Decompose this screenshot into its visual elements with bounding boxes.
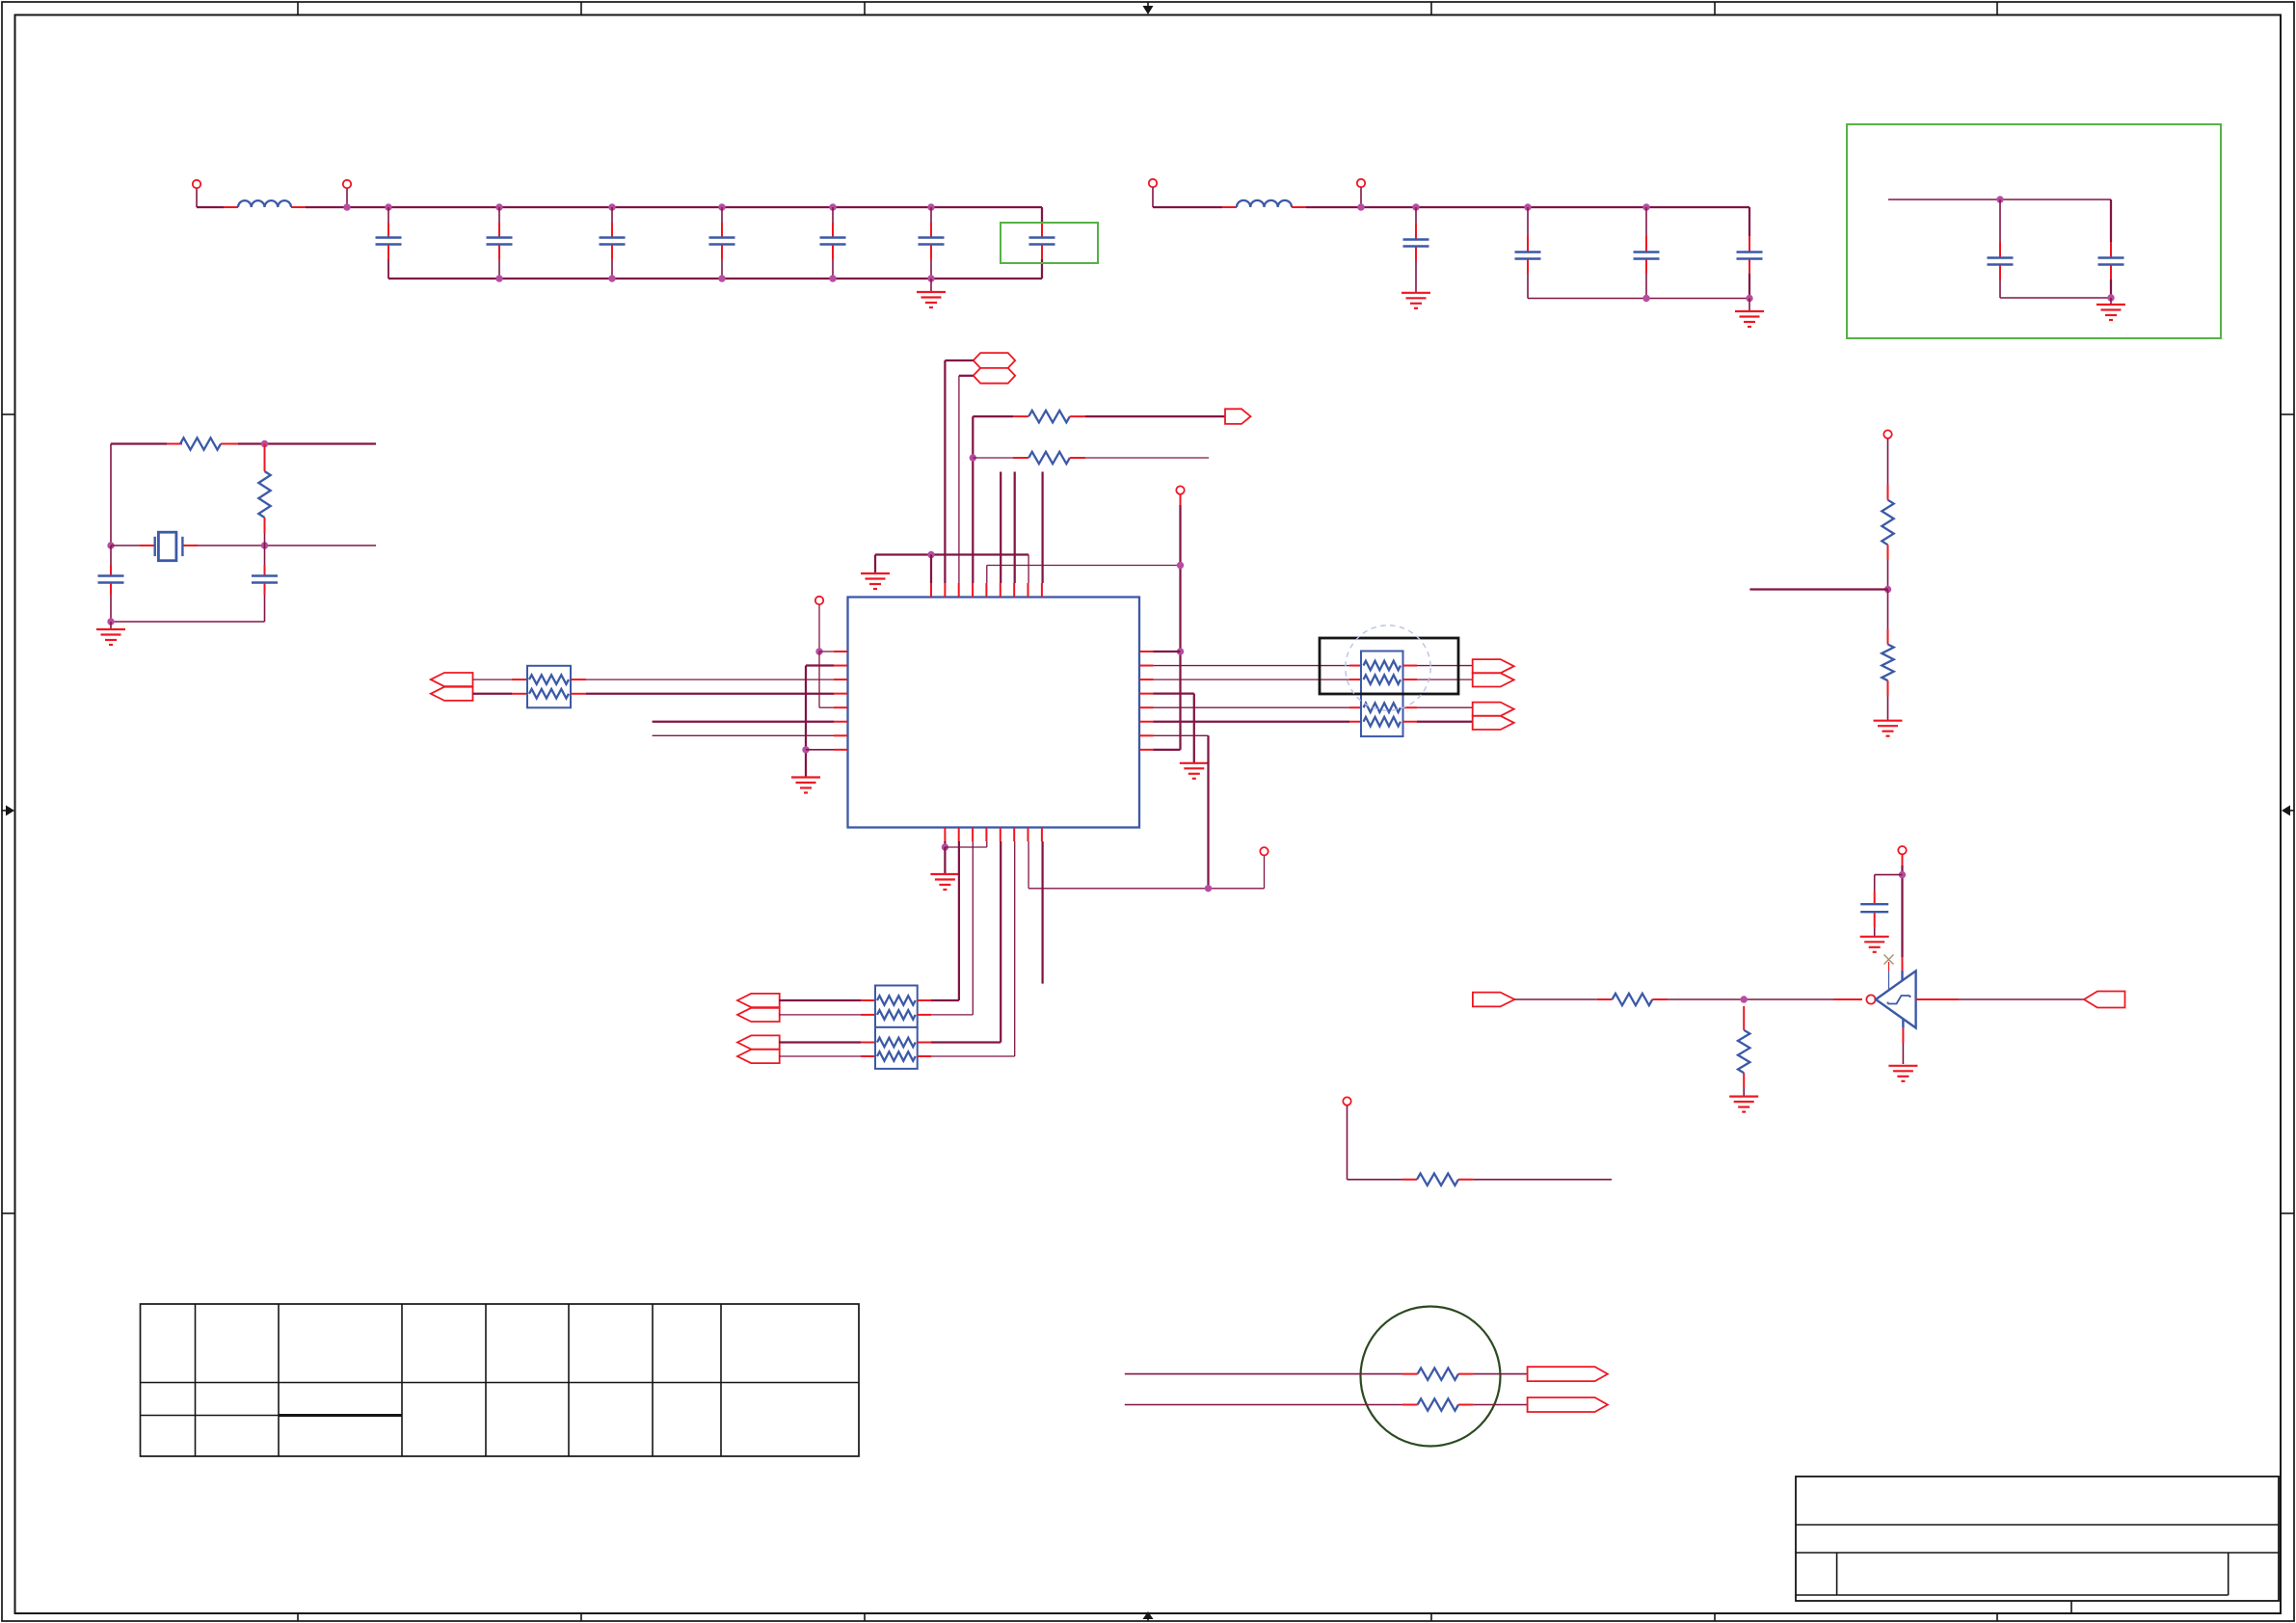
resistor R6 (1882, 645, 1893, 681)
capacitor C15 (252, 576, 278, 583)
wire pin 705 to RN2 (1154, 678, 1350, 680)
wire P9 stub (1902, 855, 1904, 865)
wire RN3B to flag (1403, 721, 1418, 723)
wire crystal top rail right (221, 443, 238, 445)
wire inverter output (1916, 998, 1959, 1000)
junction (1996, 196, 2003, 202)
wire cap C15 bottom lead (264, 584, 266, 596)
wire cap C3 bottom lead (611, 246, 613, 260)
junction (970, 454, 976, 461)
ground (1874, 721, 1903, 736)
wire cap C4 top lead (721, 207, 723, 223)
wire P5 to pin (818, 605, 820, 652)
resistor RN3B (1364, 717, 1402, 727)
wire cap C2 bottom lead (498, 246, 500, 260)
wire R9 open end (1458, 1179, 1474, 1181)
border center arrow left (2, 806, 14, 816)
capacitor C2 (487, 238, 513, 245)
junction (829, 203, 836, 210)
wire R3 to flag (1070, 415, 1085, 417)
inductor L1 (238, 200, 291, 207)
wire cap C6 top lead (930, 207, 932, 223)
port flag RX2 (737, 1008, 780, 1022)
resistor RN3A (1364, 703, 1402, 712)
wire cap C5 top lead (832, 207, 834, 223)
port flag OUT1 (1225, 409, 1251, 424)
junction (1642, 203, 1649, 210)
inverter U2 power pin (1902, 957, 1904, 971)
resistor R11 (1418, 1398, 1458, 1410)
wire divider tap (1749, 588, 1887, 590)
wire gnd jumper (945, 846, 986, 848)
junction (718, 203, 725, 210)
wire cap C14 bottom lead (110, 584, 112, 596)
wire VCC corner to pin 778 (1154, 749, 1181, 751)
wire P7 riser (1264, 856, 1266, 889)
resistor network RN1 box (527, 666, 571, 708)
port P6 (1176, 486, 1184, 493)
capacitor C7 (1029, 238, 1055, 245)
junction (927, 551, 934, 558)
wire cap C1 top lead (387, 207, 389, 223)
wire VCC to pin 676 (1154, 651, 1181, 652)
wire RX4 to RN5 (779, 1055, 861, 1057)
wire cap top lead (1645, 207, 1647, 236)
wire cap C13 top lead (2110, 200, 2112, 242)
wire P3 stub (1152, 188, 1154, 207)
resistor R10 (1418, 1368, 1458, 1379)
junction (927, 275, 934, 281)
wire filter1 bottom rail (388, 278, 1042, 279)
wire pair line 2 (1125, 1404, 1402, 1406)
wire greenbox top rail (1888, 199, 2111, 200)
ground (96, 629, 125, 645)
wire RN1B to pin 720 (571, 693, 586, 695)
capacitor C4 (709, 238, 735, 245)
ground (1402, 293, 1430, 308)
wire filter1 right wrap (1041, 207, 1043, 223)
resistor network RN5 box (875, 1027, 918, 1069)
capacitor C3 (600, 238, 626, 245)
wire pin b3 down (972, 841, 974, 1015)
IC U1 body (848, 598, 1140, 828)
wire cap C15 top lead (264, 545, 266, 565)
resistor RN1A (529, 675, 569, 684)
capacitor C5 (820, 238, 846, 245)
wire RNB row2 to pin (931, 1055, 1015, 1057)
junction (815, 648, 822, 654)
capacitor C8 (1403, 240, 1429, 247)
junction (608, 275, 615, 281)
wire cap C5 bottom lead (832, 246, 834, 260)
wire top resistor row2 (973, 457, 1013, 459)
junction (1177, 648, 1184, 654)
port flag IO2 (431, 687, 473, 701)
port P9 (1898, 846, 1906, 854)
wire gnd lead below IC (944, 847, 946, 874)
dashed highlight circle (1346, 625, 1430, 710)
junction (343, 203, 350, 210)
ground (1888, 1066, 1917, 1081)
title block (1796, 1477, 2279, 1613)
ground (1729, 1097, 1758, 1112)
wire R4 open end (1070, 457, 1085, 459)
capacitor C11 (1737, 253, 1763, 259)
wire stub pin t6 (1000, 472, 1001, 584)
port P7 (1260, 847, 1268, 855)
wire RN5B red out (918, 1055, 931, 1057)
resistor R9 (1417, 1174, 1458, 1185)
wire cap C7 bottom lead (1041, 246, 1043, 260)
wire jumper to VCC net (987, 565, 1181, 567)
ground (1860, 937, 1889, 952)
junction (2107, 294, 2114, 301)
wire pin 749 to RN3 (1154, 721, 1350, 723)
wire IO2 to resistor box (473, 693, 513, 695)
green highlight box around C7 (1001, 223, 1098, 263)
resistor RN2B (1364, 675, 1402, 684)
wire cap bottom lead (1645, 260, 1647, 275)
wire cap C13 bottom lead (2110, 266, 2112, 280)
net flag NF2 (974, 368, 1015, 384)
capacitor C14 (98, 576, 124, 583)
capacitor C12 (1988, 258, 2014, 265)
wire cap C16 top lead (1874, 875, 1876, 891)
capacitor (1515, 253, 1541, 259)
resistor R3 (1028, 411, 1070, 422)
wire R7 to node (1652, 998, 1668, 1000)
wire long net pin 749 (653, 721, 834, 723)
ground (930, 874, 959, 890)
port P8 (1883, 430, 1891, 438)
wire pin b2 down (958, 841, 960, 1000)
wire cap C8 top lead (1415, 207, 1417, 224)
wire crystal bottom rail (111, 621, 265, 623)
crystal Y1 (155, 532, 183, 561)
IC U1 left pins (834, 652, 848, 750)
wire R6 to ground (1887, 680, 1889, 696)
wire node to R8 (1743, 1006, 1745, 1030)
wire filter1 bottom left stub (387, 259, 389, 279)
wire crystal top rail left (111, 442, 167, 444)
resistor RN4A (877, 996, 916, 1005)
wire RN3A to flag (1403, 706, 1418, 708)
port P1 (193, 180, 200, 188)
resistor R2 (258, 471, 270, 518)
wire pin 763 corner (1154, 734, 1209, 736)
wire cap bottom lead (1527, 260, 1529, 275)
junction (495, 275, 502, 281)
port flag SIN (1473, 993, 1515, 1007)
wire pin b8 stub (1041, 841, 1043, 984)
wire cap C11 top lead (series wrap) (1749, 207, 1750, 236)
inverter U2 input bubble (1866, 995, 1875, 1003)
wire IO1 to resistor box (473, 678, 513, 680)
resistor network RN3 box (1361, 694, 1403, 736)
wire cap C8 bottom lead (1415, 248, 1417, 262)
port flag TX3 (1473, 703, 1514, 716)
wire R11 to flag (1458, 1404, 1473, 1406)
wire cap C12 top lead (1999, 200, 2001, 242)
wire RN4A red out (918, 999, 931, 1001)
wire ground lead crystal (110, 622, 112, 629)
wire RX2 to RN4 (779, 1014, 861, 1016)
no-connect pin stub (1888, 962, 1890, 971)
no-connect cross (1884, 955, 1894, 965)
junction (1177, 562, 1184, 569)
wire R8 to ground (1743, 1073, 1745, 1087)
wire P1 stub (196, 189, 198, 207)
wire P10 to R9 (1348, 1179, 1402, 1181)
inverter U2 ground pin (1902, 1019, 1904, 1027)
wire P5 net down (818, 652, 820, 707)
wire pin 734 to RN3 (1154, 706, 1350, 708)
wire gnd rail corner down (1028, 555, 1029, 584)
port P10 (1343, 1097, 1350, 1104)
wire net to port P7 (1028, 888, 1264, 890)
wire RN4B red out (918, 1014, 931, 1016)
resistor RN5A (877, 1038, 916, 1048)
port P3 (1149, 179, 1157, 187)
junction (107, 542, 114, 548)
wire RN2A to flag (1403, 665, 1418, 667)
green highlight circle (isolation) (1361, 1307, 1501, 1447)
capacitor C16 (1860, 904, 1888, 912)
wire pin b1 down (944, 841, 946, 847)
junction (495, 203, 502, 210)
wire cap C1 bottom lead (387, 246, 389, 260)
IC U1 right pins (1139, 652, 1154, 750)
wire P4 stub (1360, 188, 1362, 207)
resistor RN1B (529, 689, 569, 699)
border center arrow bottom (1143, 1611, 1154, 1621)
wire RNA row1 to pin (931, 999, 959, 1001)
wire VCC vertical (1179, 505, 1181, 750)
wire gnd net corner pin 691 (806, 664, 834, 666)
wire node to inverter input (1833, 998, 1862, 1000)
wire R10 to flag (1458, 1373, 1473, 1375)
wire cap C14 top lead (110, 545, 112, 565)
junction (718, 275, 725, 281)
resistor R4 (1028, 452, 1070, 464)
wire SIN to R7 (1514, 998, 1596, 1000)
wire cap C6 bottom lead (930, 246, 932, 260)
wire cap top lead (1527, 207, 1529, 236)
wire stub pin t9 (1041, 472, 1043, 584)
wire RX1 to RN4 (779, 999, 861, 1001)
resistor RN2A (1364, 661, 1402, 671)
wire P10 drop (1347, 1105, 1348, 1180)
IC U1 top pins (931, 583, 1042, 598)
junction (1524, 203, 1531, 210)
ground (861, 573, 890, 589)
wire pin b6 down (1014, 841, 1016, 1056)
port flag IO1 (431, 673, 473, 686)
wire VCC to cap branch (1875, 874, 1903, 876)
wire RN2B to flag (1403, 678, 1418, 680)
port flag SOUT (2084, 992, 2125, 1008)
junction (608, 203, 615, 210)
junction (1412, 203, 1419, 210)
wire ground lead greenbox (2110, 298, 2112, 305)
wire filter2 bottom rail (1528, 298, 1749, 300)
net flag NF1 (974, 353, 1015, 368)
wire R5 to node (1887, 545, 1889, 560)
wire pair line 1 (1125, 1373, 1402, 1375)
wire VCC drop (1901, 865, 1903, 957)
schmitt hysteresis symbol (1888, 996, 1910, 1004)
wire cap C16 bottom lead (1874, 913, 1876, 927)
wire long net pin 763 (653, 734, 834, 736)
junction (1899, 871, 1906, 878)
junction (927, 203, 934, 210)
port flag TX2 (1473, 673, 1514, 686)
wire cap C3 top lead (611, 207, 613, 223)
ground (917, 292, 946, 307)
junction (1642, 295, 1649, 302)
resistor R8 (1738, 1030, 1749, 1073)
wire greenbox bottom rail (2000, 297, 2111, 299)
wire pin t4 vertical (972, 416, 974, 583)
capacitor C1 (376, 238, 402, 245)
wire P6 stub (1180, 494, 1182, 505)
junction (802, 746, 809, 753)
junction (385, 203, 391, 210)
wire crystal mid left lead (111, 545, 140, 546)
wire RX3 to RN5 (779, 1041, 861, 1043)
wire to pin 778 (806, 749, 834, 751)
wire pin t1 up (930, 555, 932, 584)
junction (1357, 203, 1364, 210)
junction (1205, 885, 1212, 891)
wire pin b7 down (1028, 841, 1029, 889)
wire gnd net vertical (805, 666, 807, 778)
junction (107, 618, 114, 625)
port flag TX4 (1473, 716, 1514, 730)
wire filter2 rail to L2 (1153, 206, 1222, 208)
IC U1 bottom pins (945, 828, 1042, 842)
wire stub pin t7 (1014, 472, 1016, 584)
wire gnd rail above IC (875, 553, 1028, 555)
wire crystal mid right lead (183, 545, 198, 546)
ground (1735, 311, 1764, 327)
wire filter1 rail after L1 (291, 206, 306, 208)
wire RN1A to pin 705 (571, 678, 586, 680)
capacitor C13 (2098, 258, 2124, 265)
revision table (141, 1304, 860, 1456)
wire RNB row1 to pin (931, 1041, 1001, 1043)
wire pin 720 corner (1154, 693, 1194, 695)
wire NF1 lead (945, 359, 973, 361)
inductor L2 (1237, 200, 1292, 207)
junction (942, 843, 948, 850)
ground (791, 778, 820, 793)
wire P8 stub (1887, 439, 1889, 485)
wire node to R6 (1887, 590, 1889, 630)
wire filter2 rail after L2 (1292, 206, 1306, 208)
green highlight box (decoupling pair) (1847, 124, 2221, 338)
wire to pin 734 (819, 706, 834, 708)
port flag RX3 (737, 1035, 780, 1049)
resistor R5 (1882, 500, 1893, 545)
resistor RN4B (877, 1010, 916, 1020)
port P4 (1357, 179, 1365, 187)
port flag DP (1528, 1367, 1608, 1381)
capacitor (1634, 253, 1660, 259)
wire node to pin 676 (819, 651, 834, 652)
wire RN5A red out (918, 1042, 931, 1044)
junction (1741, 996, 1748, 1002)
wire top resistor row1 (973, 415, 1013, 417)
ground (1180, 763, 1209, 779)
port P5 (815, 597, 823, 604)
wire resistor R2 bottom lead (264, 518, 266, 533)
port flag RX4 (737, 1050, 780, 1063)
ground (2096, 305, 2125, 320)
wire ground lead filter1 (930, 279, 932, 292)
capacitor C6 (919, 238, 945, 245)
wire pin t3 vertical (958, 376, 960, 583)
wire cap C11 bottom lead (1749, 260, 1750, 275)
black highlight box around RN2 (1320, 638, 1458, 694)
border center arrow right (2282, 806, 2294, 816)
junction (1884, 586, 1891, 593)
port flag TX1 (1473, 659, 1514, 673)
wire cap C12 bottom lead (1999, 266, 2001, 280)
port P2 (343, 180, 351, 188)
wire pin b5 down (1000, 841, 1001, 1043)
resistor network RN4 box (875, 986, 918, 1027)
wire crystal left vertical (110, 444, 112, 546)
wire pin t5 up-jumper (986, 566, 988, 584)
wire pin b4 down (986, 841, 988, 847)
wire NF2 lead (959, 375, 974, 377)
wire cap C2 top lead (498, 207, 500, 223)
wire cap C4 bottom lead (721, 246, 723, 260)
inverter U2 (schmitt) (1876, 971, 1916, 1027)
junction (261, 440, 268, 447)
wire P2 stub (346, 189, 348, 207)
port flag DM (1528, 1397, 1608, 1412)
wire pin t2 vertical (944, 360, 946, 583)
junction (261, 542, 268, 548)
resistor RN5B (877, 1051, 916, 1061)
wire filter1 top rail segment (197, 206, 224, 208)
wire RNA row2 to pin (931, 1014, 973, 1016)
wire resistor R2 top lead (264, 444, 266, 472)
resistor R1 (180, 438, 221, 449)
junction (829, 275, 836, 281)
wire ground lead filter2 (1749, 299, 1750, 312)
junction (1746, 295, 1752, 302)
port flag RX1 (737, 994, 780, 1007)
wire pin 691 to RN2 (1154, 665, 1350, 667)
border center arrow top (1143, 2, 1154, 14)
resistor R7 (1613, 994, 1653, 1005)
resistor network RN2 box (1361, 652, 1403, 694)
